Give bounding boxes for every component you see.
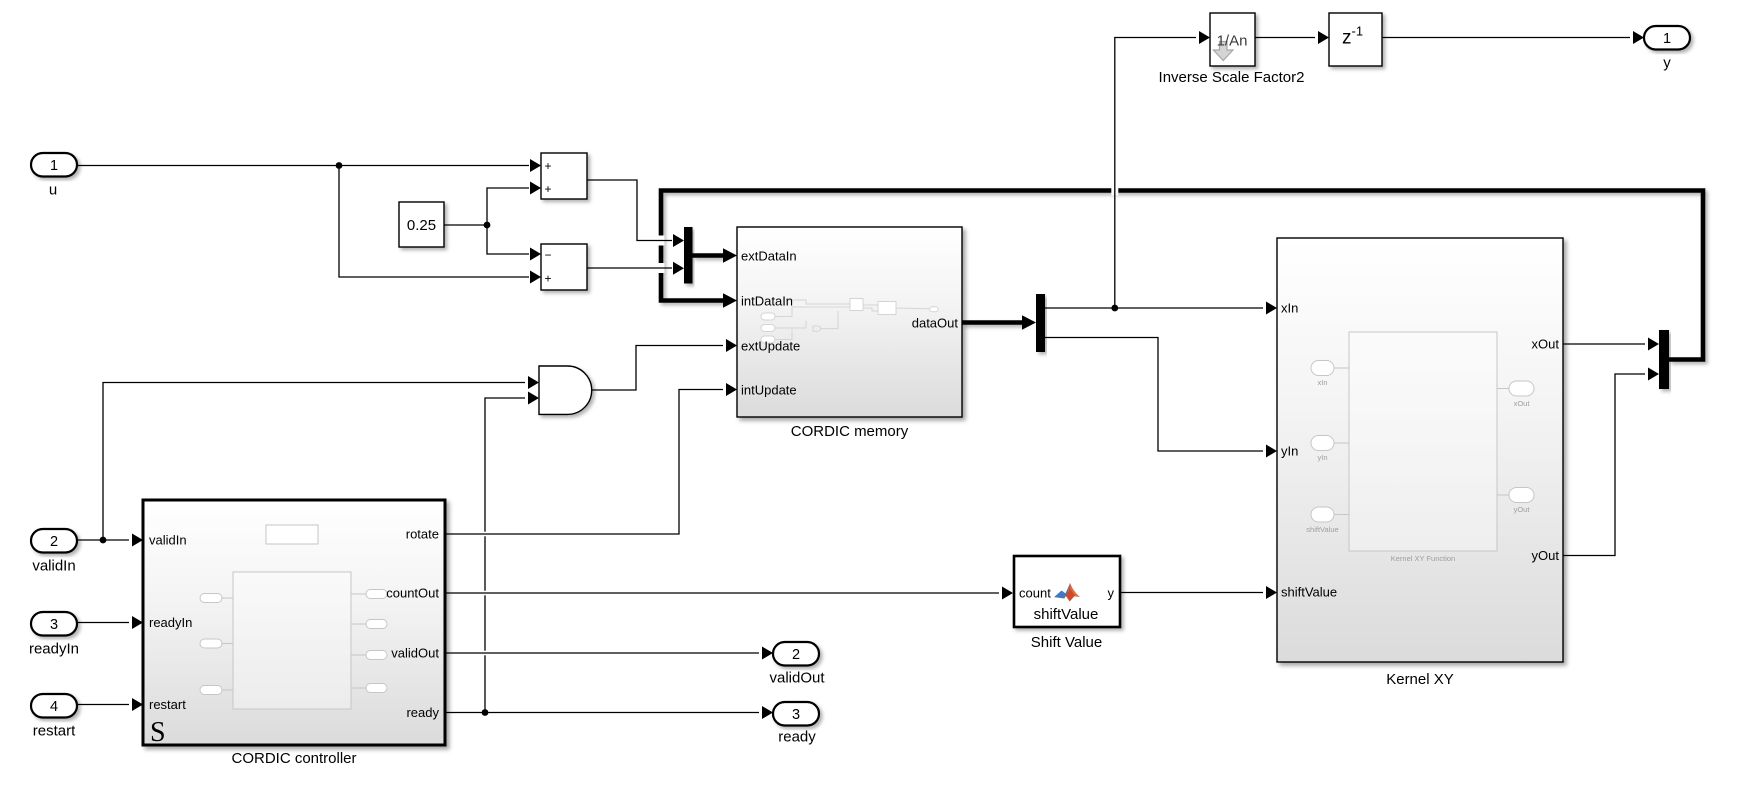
gray down arrow icon	[1213, 42, 1233, 61]
wire u branch down to Subtract plus input	[339, 166, 529, 278]
wire yOut to Kernel mux input 2	[1563, 374, 1645, 556]
svg-text:Inverse Scale Factor2: Inverse Scale Factor2	[1159, 69, 1305, 86]
wire Inverse Scale Factor2 to unit delay	[1255, 37, 1315, 39]
wire Shift Value y to shiftValue	[1120, 592, 1263, 594]
inport 3 readyIn	[31, 612, 77, 636]
thick feedback wire Kernel mux output to intDataIn	[661, 191, 1703, 360]
wire junction up to Inverse Scale Factor2 (crosses thick feedback)	[1111, 186, 1118, 196]
svg-text:xOut: xOut	[1514, 399, 1531, 408]
svg-text:intUpdate: intUpdate	[741, 383, 797, 398]
svg-text:extDataIn: extDataIn	[741, 249, 797, 264]
svg-text:3: 3	[792, 707, 800, 723]
svg-text:2: 2	[792, 647, 800, 663]
svg-text:Kernel XY Function: Kernel XY Function	[1391, 554, 1455, 563]
svg-text:0.25: 0.25	[407, 217, 436, 234]
junction on 0.25 wire	[484, 222, 491, 229]
svg-text:+: +	[545, 182, 552, 196]
inport 2 validIn	[31, 529, 77, 553]
svg-text:readyIn: readyIn	[149, 615, 192, 630]
wire inport readyIn to controller	[77, 622, 129, 624]
svg-text:rotate: rotate	[406, 527, 439, 542]
svg-text:restart: restart	[149, 697, 186, 712]
wire inport validIn to controller	[77, 539, 129, 541]
sum block Add (plus plus)	[541, 153, 587, 199]
svg-text:3: 3	[50, 617, 58, 633]
thick wire dataOut to demux	[962, 320, 1022, 325]
svg-text:+: +	[545, 159, 552, 173]
inport 1 u	[31, 153, 77, 177]
svg-text:y: y	[1108, 586, 1115, 601]
gain Inverse Scale Factor2 (1/An)	[1210, 13, 1255, 66]
junction on u wire	[336, 162, 343, 169]
wire AND output to extUpdate	[592, 346, 723, 391]
svg-text:dataOut: dataOut	[912, 316, 959, 331]
svg-text:extUpdate: extUpdate	[741, 339, 800, 354]
wire ready junction up to AND input 2	[485, 398, 525, 713]
svg-text:1: 1	[50, 158, 58, 174]
wire demux out2 to yIn	[1045, 338, 1263, 452]
wire constant 0.25 output	[444, 224, 487, 226]
wire ready to outport 3	[445, 712, 759, 714]
junction on ready wire	[482, 709, 489, 716]
svg-text:CORDIC controller: CORDIC controller	[231, 750, 356, 767]
svg-text:-1: -1	[1352, 24, 1364, 39]
svg-text:y: y	[1663, 55, 1671, 72]
outport 1 y	[1644, 26, 1690, 50]
svg-text:xIn: xIn	[1281, 301, 1298, 316]
svg-text:yIn: yIn	[1281, 444, 1298, 459]
logic AND gate	[539, 366, 592, 414]
wire validIn junction up to AND input 1	[103, 383, 525, 541]
svg-text:1/An: 1/An	[1217, 33, 1248, 50]
constant 0.25	[399, 202, 444, 247]
svg-text:+: +	[545, 272, 552, 286]
svg-text:yIn: yIn	[1317, 453, 1327, 462]
wire 0.25 down to Subtract minus input	[487, 225, 529, 254]
svg-text:shiftValue: shiftValue	[1281, 585, 1337, 600]
wire xOut to Kernel mux input 1	[1563, 343, 1645, 345]
wire Subtract output to mux input 2 (crosses thick feedback)	[658, 263, 665, 273]
thick wire mux to extDataIn	[693, 253, 724, 258]
outport 2 validOut	[773, 642, 819, 666]
svg-text:u: u	[49, 182, 57, 199]
wire countOut to Shift Value (crosses AND feed line)	[480, 591, 490, 596]
svg-text:shiftValue: shiftValue	[1306, 525, 1338, 534]
junction on xIn wire	[1111, 305, 1118, 312]
svg-text:Kernel XY: Kernel XY	[1386, 671, 1454, 688]
svg-text:4: 4	[50, 699, 58, 715]
svg-text:yOut: yOut	[1514, 505, 1531, 514]
svg-text:Shift Value: Shift Value	[1031, 634, 1102, 651]
MATLAB function Shift Value	[1014, 556, 1120, 627]
svg-text:2: 2	[50, 534, 58, 550]
wire from inport u to Add	[77, 165, 529, 167]
wire 0.25 up to Add second input	[487, 188, 529, 225]
svg-text:S: S	[150, 717, 166, 748]
svg-text:−: −	[545, 248, 552, 262]
sum block Subtract (minus plus)	[541, 244, 587, 290]
mux bar (Add outputs to extDataIn vector)	[684, 227, 693, 284]
wire rotate to intUpdate	[480, 532, 490, 537]
svg-text:intDataIn: intDataIn	[741, 294, 793, 309]
svg-text:shiftValue: shiftValue	[1034, 606, 1099, 623]
svg-text:validOut: validOut	[391, 646, 439, 661]
outport 3 ready	[773, 702, 819, 726]
svg-text:count: count	[1019, 586, 1051, 601]
svg-text:countOut: countOut	[386, 586, 439, 601]
svg-text:z: z	[1342, 28, 1352, 49]
wire Add output to mux input 1 (crosses thick feedback)	[658, 236, 665, 246]
CORDIC controller content preview	[200, 525, 387, 709]
svg-text:yOut: yOut	[1532, 548, 1560, 563]
unit delay z^-1	[1329, 13, 1382, 66]
svg-text:ready: ready	[778, 729, 816, 746]
subsystem CORDIC memory	[737, 227, 962, 417]
svg-text:validOut: validOut	[769, 670, 825, 687]
MATLAB logo	[1054, 583, 1080, 602]
wire unit delay to outport y	[1382, 37, 1630, 39]
subsystem Kernel XY	[1277, 238, 1563, 662]
demux bar (dataOut split)	[1036, 294, 1045, 352]
svg-text:validIn: validIn	[149, 533, 187, 548]
junction on validIn wire	[100, 537, 107, 544]
mux bar (xOut yOut to feedback vector)	[1659, 330, 1669, 389]
stateflow chart CORDIC controller	[143, 500, 445, 745]
svg-text:xIn: xIn	[1317, 378, 1327, 387]
svg-text:xOut: xOut	[1532, 337, 1560, 352]
svg-text:readyIn: readyIn	[29, 641, 79, 658]
inport 4 restart	[31, 694, 77, 718]
wire inport restart to controller	[77, 704, 129, 706]
svg-text:restart: restart	[33, 723, 76, 740]
svg-text:CORDIC memory: CORDIC memory	[791, 423, 909, 440]
Kernel XY content preview	[1311, 332, 1534, 551]
CORDIC memory content preview	[761, 299, 938, 344]
svg-text:validIn: validIn	[32, 558, 75, 575]
wire validOut to outport 2 (crosses AND feed line)	[480, 651, 490, 656]
wire demux out1 to xIn	[1045, 307, 1263, 309]
svg-text:ready: ready	[406, 705, 439, 720]
svg-text:1: 1	[1663, 31, 1671, 47]
